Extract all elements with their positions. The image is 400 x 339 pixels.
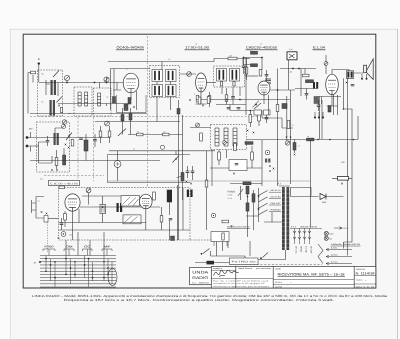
shield box RF coils 2: [94, 88, 112, 116]
fuse block: [44, 216, 48, 223]
resistor R33 dark: [207, 261, 215, 265]
contacts: [298, 231, 301, 239]
shield box osc coils: [37, 122, 70, 172]
wire to psu: [48, 218, 59, 220]
switch S4: [238, 186, 243, 200]
junction x: [124, 106, 126, 108]
wire osc loop: [39, 142, 53, 163]
switch lever S6: [203, 249, 211, 257]
switch lever S3a: [173, 156, 180, 163]
wire bus bottom1: [211, 256, 246, 260]
resistor R9a: [259, 70, 262, 77]
tube V2 EF41: [196, 73, 207, 92]
wire lower: [230, 183, 262, 185]
resistor R34 dark: [307, 138, 315, 141]
trimmer C21: [86, 188, 91, 193]
bracket: [43, 249, 55, 251]
trimmer C2: [104, 77, 109, 82]
tap arrow: [326, 255, 352, 258]
junction: [255, 104, 257, 106]
junction: [249, 259, 251, 261]
svg-text:4a: 4a: [292, 124, 294, 127]
resistor R36: [258, 113, 261, 121]
resistor R21a: [251, 152, 254, 160]
wire IF3 in: [190, 127, 211, 129]
resistor R14a dark: [121, 115, 124, 122]
junction: [102, 206, 104, 208]
svg-text:OC40b–WO40h: OC40b–WO40h: [117, 46, 145, 50]
wire heater bus top: [280, 68, 316, 70]
junction x: [46, 213, 48, 215]
svg-text:6,3 B.L.: 6,3 B.L.: [331, 247, 338, 250]
resistor R10a: [303, 74, 310, 77]
paper edge top: [10, 28, 398, 30]
coil L10 dark: [63, 155, 66, 165]
svg-text:DISEGNO: DISEGNO: [356, 268, 366, 271]
wire bus x286: [286, 96, 288, 141]
junction: [94, 82, 96, 84]
switch lever: [259, 210, 268, 215]
junction: [258, 110, 260, 112]
wire C11: [319, 97, 322, 112]
box rete: [211, 232, 229, 242]
wire bus x268: [268, 95, 270, 115]
svg-text:C.IC.05 = 40.I.05: C.IC.05 = 40.I.05: [50, 182, 79, 185]
wire divider solid: [108, 180, 311, 182]
wire switch feed: [246, 216, 282, 222]
switch lever: [53, 71, 59, 78]
box electrolytic C9: [254, 110, 262, 115]
junction: [286, 136, 288, 138]
shield box IF1: [150, 66, 180, 98]
wire shield divider v3: [93, 117, 95, 181]
wire R8a: [246, 58, 248, 81]
coil L13: [224, 128, 228, 146]
resistor R41 dark: [177, 109, 180, 115]
tube V4 EL84: [326, 74, 339, 94]
trimmer C19: [285, 141, 289, 145]
wire IF1 drops: [157, 97, 171, 122]
wire IF interconnect: [157, 82, 171, 85]
wire IF3 drops: [212, 150, 227, 187]
svg-text:50: 50: [107, 96, 109, 99]
wire box drops: [217, 242, 229, 257]
resistor R8 dark: [251, 64, 258, 67]
junction: [258, 208, 260, 210]
wire IF2 drops: [222, 87, 240, 96]
wire C16: [188, 166, 193, 180]
svg-text:MF 16–18: MF 16–18: [271, 189, 282, 192]
junction x: [273, 168, 275, 170]
svg-text:14: 14: [133, 148, 135, 151]
contact underline: [269, 204, 281, 206]
svg-text:6: 6: [127, 68, 128, 71]
wire IF drop: [161, 62, 163, 70]
wire speaker leads: [362, 74, 367, 78]
junction: [175, 158, 177, 160]
wire C20: [61, 218, 63, 230]
switch lever: [259, 191, 268, 196]
wire lower bus left: [58, 103, 128, 105]
capacitor C10b: [305, 94, 309, 95]
wire bus x347: [347, 78, 349, 255]
resistor R10b dark: [306, 80, 314, 83]
resistor R30: [222, 220, 229, 223]
junction: [269, 165, 271, 167]
svg-text:100: 100: [229, 55, 232, 58]
contact pair dark: [265, 159, 267, 163]
svg-text:ATT. OC: ATT. OC: [295, 246, 298, 254]
paper edge right: [397, 29, 399, 339]
capacitor stack C8b: [265, 79, 271, 84]
wire V1 pin2: [136, 91, 138, 110]
wire L7 up: [99, 83, 101, 89]
wire bus bottom2: [245, 259, 286, 261]
resistor R1: [31, 71, 36, 74]
capacitor C6c: [237, 108, 241, 109]
underline b: [290, 227, 322, 229]
wire V4 pins down: [334, 95, 338, 115]
resistor R16: [163, 133, 170, 136]
junction: [226, 99, 228, 101]
arrow: [334, 227, 342, 230]
junction: [258, 195, 260, 197]
junction: [261, 57, 263, 59]
wire shield divider h1: [30, 116, 260, 118]
tube V1 ECH42: [123, 73, 139, 93]
wire IF3 out long: [247, 116, 359, 140]
wire C8a: [266, 70, 268, 80]
potentiometer P1 volume: [114, 161, 121, 168]
label underline: [227, 227, 250, 229]
bracket stem: [68, 249, 70, 256]
box motor section: [108, 155, 191, 183]
electrolytic C23 dark pair: [117, 203, 119, 212]
wire det loop: [243, 58, 262, 65]
resistor R4 dark: [113, 97, 116, 104]
IF transformer T1d: [166, 85, 177, 97]
capacitor C6b: [227, 108, 231, 109]
speaker terminal: [361, 78, 363, 80]
wire dashed drop: [47, 222, 49, 252]
wire antenna down: [38, 65, 40, 82]
coil L12: [215, 128, 219, 146]
junction: [329, 139, 331, 141]
svg-text:FONO: FONO: [45, 245, 55, 249]
capacitor C16b: [191, 171, 195, 172]
junction x: [56, 169, 58, 171]
capacitor C20: [60, 223, 64, 224]
junction x: [65, 144, 67, 146]
resistor R26: [153, 192, 156, 200]
electrolytic C10c dark: [314, 97, 319, 104]
junction x: [133, 106, 135, 108]
junction: [239, 99, 241, 101]
resistor R19a: [200, 133, 203, 141]
svg-text:GRAM.: GRAM.: [300, 246, 303, 253]
junction x: [341, 183, 343, 185]
wire switch left rail: [258, 188, 260, 222]
wire shield divider h2: [44, 175, 104, 177]
wire IF top feed: [108, 59, 250, 62]
resistor R29 dark: [246, 203, 249, 211]
resistor R11 dark: [328, 106, 331, 113]
shield box antenna coils: [38, 70, 63, 116]
junction: [298, 68, 300, 70]
svg-text:U1: U1: [38, 200, 40, 203]
capacitor C7: [242, 66, 246, 67]
wire column: [299, 229, 301, 245]
title underline: [278, 276, 346, 278]
shield box RF coils: [74, 87, 92, 116]
wire V4 top: [325, 55, 327, 74]
junction x: [51, 169, 53, 171]
switch lever S2c: [118, 129, 126, 137]
tone pot circle: [161, 145, 165, 149]
wire band2 top: [95, 121, 180, 123]
wire psu h4: [59, 229, 191, 231]
antenna terminal: [38, 62, 40, 64]
wire IF2 out: [245, 75, 259, 77]
resistor R20 dark: [293, 143, 296, 151]
svg-text:data firma: data firma: [238, 267, 252, 270]
svg-text:RADIO: RADIO: [192, 275, 208, 280]
trimmer C13a: [62, 120, 66, 124]
junction: [292, 68, 294, 70]
trimmer C1: [64, 75, 69, 80]
wire shield divider v1: [147, 36, 149, 187]
pilot lamp LP1: [324, 231, 328, 235]
pilot lamp LP2: [324, 236, 328, 240]
wire bus x343: [344, 78, 353, 248]
paper edge left: [10, 29, 12, 339]
wire bus x310: [310, 140, 312, 228]
wire V4 cathode: [327, 95, 339, 106]
label underline: [185, 49, 210, 51]
coil L14: [233, 128, 237, 146]
bracket stem: [106, 249, 108, 256]
wire lever feed: [175, 151, 177, 155]
svg-text:220: 220: [69, 234, 72, 237]
contact underline: [269, 191, 281, 193]
band switch contact grid: [40, 256, 116, 288]
tap arrow: [326, 262, 352, 265]
svg-text:N. 1114/18: N. 1114/18: [356, 272, 375, 276]
wire diode out: [326, 196, 344, 198]
wire bus x182: [182, 115, 184, 200]
electrolytic C22: [100, 205, 106, 214]
junction: [68, 135, 70, 137]
wire psu drops: [162, 185, 178, 240]
junction x: [186, 181, 188, 183]
junction x: [58, 237, 60, 239]
coil L2 pair: [50, 100, 52, 116]
label underline: [116, 49, 144, 51]
wire osc parts: [101, 126, 110, 143]
contact underline: [269, 198, 281, 200]
box rete2: [214, 242, 227, 247]
resistor R31: [222, 233, 224, 240]
resistor R8t dark: [251, 51, 258, 54]
junction x: [346, 82, 348, 84]
tube V5 rectifier UY42: [65, 194, 80, 211]
svg-text:~: ~: [365, 279, 367, 283]
svg-text:RICEVITORE MA. MF. 53/75 – 1: RICEVITORE MA. MF. 53/75 – 16–18: [278, 273, 345, 277]
capacitor C28: [46, 141, 50, 142]
svg-text:17.80–51.90: 17.80–51.90: [185, 46, 209, 50]
resistor R23: [338, 177, 349, 181]
wire left drop: [27, 73, 29, 114]
wire V1 top cap: [111, 68, 150, 70]
svg-text:SCALA: SCALA: [275, 281, 283, 284]
wire psu to grid: [66, 232, 104, 256]
wire R23: [332, 177, 352, 179]
contacts: [303, 231, 306, 239]
svg-text:4.8: 4.8: [168, 58, 170, 61]
label underline: [246, 49, 278, 51]
resistor R9b: [276, 105, 279, 112]
filter box: [230, 258, 259, 265]
junction x: [294, 154, 296, 156]
label transformer CIC05: [49, 181, 80, 186]
grid cap V4: [324, 62, 328, 66]
resistor R12a: [71, 140, 74, 147]
junction x: [190, 183, 192, 185]
connector mains plug: [32, 197, 45, 219]
wire drops: [301, 69, 305, 97]
wire V2 cathode: [196, 92, 207, 104]
connector PU terminals: [26, 132, 34, 152]
shield box IF2: [214, 66, 245, 87]
capacitor C26: [265, 118, 269, 119]
resistor R37: [287, 121, 290, 129]
switch S1b: [57, 83, 63, 103]
wire plate to speaker: [332, 70, 364, 75]
capacitor C18: [235, 164, 239, 165]
switch lever: [259, 203, 268, 208]
svg-text:Regola tono 53/75: Regola tono 53/75: [227, 226, 251, 229]
resistor R20 dark: [245, 142, 253, 145]
capacitor C16a: [186, 171, 190, 172]
switch lever S7: [263, 253, 269, 258]
trimmer C27: [62, 125, 66, 129]
junction: [243, 57, 245, 59]
tube V6 UL41: [140, 194, 153, 209]
wire tap zigzag: [318, 244, 323, 264]
wire choke down: [168, 202, 170, 240]
switch lever: [259, 197, 268, 202]
resistor T2b sub: [233, 82, 235, 87]
svg-text:MF: MF: [104, 245, 111, 249]
wire V6 down: [145, 209, 147, 230]
wire feed2: [271, 212, 273, 222]
svg-text:Modifiche: Modifiche: [213, 267, 222, 270]
connector jack J1: [287, 52, 297, 60]
speaker terminal2: [366, 78, 368, 80]
junction x: [202, 105, 204, 107]
speaker LS1: [364, 59, 374, 80]
wire psu h1: [82, 195, 130, 197]
wire cluster bus: [216, 104, 246, 106]
junction x: [58, 105, 60, 107]
jack circle J2: [265, 150, 270, 155]
resistor R19b: [218, 152, 221, 160]
svg-text:SCALA: SCALA: [356, 278, 363, 281]
junction: [247, 196, 249, 198]
svg-text:6,3 V: 6,3 V: [344, 227, 349, 230]
grid terminal: [39, 261, 41, 263]
svg-text:4,1 O.L.: 4,1 O.L.: [331, 261, 339, 264]
contacts: [293, 231, 296, 239]
wire C21 down: [88, 193, 90, 205]
junction: [201, 253, 203, 255]
tap arrow: [326, 248, 352, 251]
tone box: [229, 160, 247, 171]
trimmer C5: [187, 72, 192, 77]
svg-text:4,5 OM: 4,5 OM: [305, 246, 308, 253]
svg-text:FILTRO 4Ω: FILTRO 4Ω: [232, 261, 256, 264]
trimmer C17b: [223, 141, 227, 145]
trimmer C17: [196, 123, 200, 127]
bracket: [64, 249, 74, 251]
junction x: [233, 173, 235, 175]
junction: [343, 108, 345, 110]
bracket stem: [48, 249, 50, 256]
wire cluster drops: [250, 111, 266, 128]
wire C10b: [306, 89, 308, 100]
svg-text:OM 187: OM 187: [271, 202, 282, 205]
padder box: [117, 95, 147, 113]
wire tone box leads: [210, 167, 262, 169]
wire IF1 out: [180, 73, 197, 75]
svg-text:per contratto: per contratto: [256, 267, 271, 270]
wire loop heater: [291, 188, 312, 197]
resistor R6: [208, 96, 211, 103]
resistor R2: [60, 108, 62, 113]
svg-text:Valvole serie B: Valvole serie B: [300, 225, 318, 228]
wire heater: [290, 196, 319, 198]
wire mid: [295, 88, 318, 90]
wire R28-R29: [247, 194, 249, 237]
wire C22: [102, 196, 104, 223]
bracket: [102, 249, 112, 251]
wire column: [304, 229, 306, 245]
IF transformer T2b: [230, 69, 240, 82]
wire band2 bus3: [109, 150, 215, 152]
coil L5: [78, 92, 81, 106]
wire psu h2: [80, 206, 160, 208]
wiper: [177, 177, 182, 178]
padder dark core: [124, 104, 128, 111]
switch lever S2a: [66, 133, 72, 141]
contacts: [308, 231, 311, 239]
wire trimmer leads: [67, 77, 107, 106]
label underline: [313, 49, 326, 51]
svg-text:S.A. – OMEGNA: S.A. – OMEGNA: [192, 281, 210, 284]
capacitor C12s: [351, 85, 355, 86]
svg-text:A: A: [38, 57, 40, 61]
wire psu drop2: [182, 188, 184, 230]
resistor R19c: [234, 144, 237, 151]
IF transformer T2a: [217, 69, 227, 82]
electrolytic C24 dark pair: [187, 190, 189, 198]
junction: [269, 170, 271, 172]
junction: [250, 110, 252, 112]
wire band2 bus2: [30, 160, 160, 162]
resistor R28 dark: [246, 186, 249, 194]
wire R1: [28, 73, 33, 83]
svg-text:RAD.: RAD.: [322, 201, 327, 204]
